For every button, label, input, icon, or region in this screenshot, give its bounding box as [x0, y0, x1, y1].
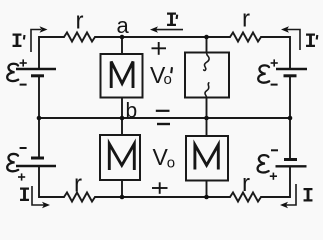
- motor U1 M letter: [111, 62, 133, 89]
- wire top left: [39, 37, 64, 69]
- wire motor U3 to bottom: [121, 180, 123, 197]
- node b junction dot: [120, 116, 125, 121]
- svg-text:a: a: [117, 13, 130, 38]
- wire right middle: [289, 77, 291, 160]
- wire bottom right: [261, 167, 290, 198]
- svg-text:r: r: [76, 8, 84, 35]
- current arrow I bottom-left elbow: [32, 186, 44, 205]
- battery E4 script-E label: [258, 155, 269, 172]
- junction dot middle right: [288, 116, 293, 121]
- motor U4 M letter: [195, 145, 218, 170]
- svg-text:o: o: [167, 155, 175, 172]
- wire top right: [261, 37, 290, 69]
- wire left middle: [38, 77, 40, 158]
- current arrow I' top-right elbow: [287, 30, 300, 51]
- current arrow I' top-middle: [156, 29, 183, 31]
- label Vo minus: [157, 123, 170, 125]
- junction dot middle U4: [204, 116, 209, 121]
- battery E1 top-left plates: [16, 69, 56, 76]
- junction dot bottom U3: [120, 195, 125, 200]
- svg-text:I: I: [11, 31, 23, 54]
- svg-text:b: b: [126, 100, 138, 123]
- broken motor U2 box: [185, 53, 229, 98]
- label Vo plus: [152, 182, 168, 194]
- junction dot top U2: [204, 35, 209, 40]
- wire middle bus to motor U3: [121, 118, 123, 135]
- motor U3 M letter: [109, 144, 134, 170]
- wire left bottom: [39, 167, 64, 198]
- wire top to broken motor U2: [206, 37, 208, 53]
- battery E2 script-E label: [258, 65, 269, 82]
- battery E1 minus label: [20, 84, 27, 86]
- resistor r bottom-left: [64, 193, 95, 202]
- motor U4 box: [186, 136, 228, 181]
- battery E4 bottom-right plates: [276, 160, 307, 167]
- junction dot middle left: [37, 116, 42, 121]
- wire middle bus to motor U4: [206, 118, 208, 136]
- wire motor U1 to node b: [121, 98, 123, 119]
- svg-text:r: r: [242, 6, 250, 33]
- motor U3 box: [100, 135, 140, 180]
- current arrow I' top-left elbow: [31, 30, 41, 53]
- battery E2 minus label: [271, 84, 278, 86]
- wire motor U4 to bottom: [206, 181, 208, 198]
- broken motor U2 upper break squiggle: [204, 53, 209, 71]
- battery E4 plus label: [270, 173, 277, 180]
- wire node a to motor U1: [121, 37, 123, 54]
- broken motor U2 lower break squiggle: [205, 83, 209, 98]
- label Vo-prime minus: [156, 110, 170, 112]
- resistor r top-left: [64, 33, 95, 42]
- wire top middle: [95, 36, 230, 38]
- current arrow I bottom-right elbow: [286, 184, 296, 205]
- junction dot bottom U4: [204, 195, 209, 200]
- svg-text:r: r: [242, 170, 250, 197]
- battery E2 top-right plates: [276, 69, 307, 76]
- resistor r top-right: [230, 33, 261, 42]
- battery E3 plus label: [18, 173, 25, 180]
- svg-text:o: o: [164, 71, 172, 88]
- battery E4 minus label: [271, 149, 278, 151]
- node a junction dot: [120, 35, 125, 40]
- battery E3 minus label: [20, 147, 27, 149]
- svg-text:I: I: [302, 186, 314, 209]
- battery E1 plus label: [20, 59, 27, 66]
- svg-text:I: I: [19, 185, 31, 208]
- svg-text:I: I: [166, 10, 178, 33]
- svg-text:I: I: [305, 31, 317, 54]
- wire broken motor U2 to middle bus: [206, 98, 208, 119]
- wire middle bus: [39, 117, 290, 119]
- battery E3 script-E label: [7, 154, 18, 171]
- motor U1 box: [101, 54, 143, 98]
- battery E3 bottom-left plates: [16, 158, 56, 166]
- wire bottom middle: [95, 196, 230, 198]
- svg-text:r: r: [74, 171, 82, 198]
- resistor r bottom-right: [230, 193, 261, 202]
- battery E2 plus label: [271, 59, 278, 66]
- battery E1 script-E label: [7, 64, 18, 81]
- label Vo-prime plus: [152, 42, 167, 55]
